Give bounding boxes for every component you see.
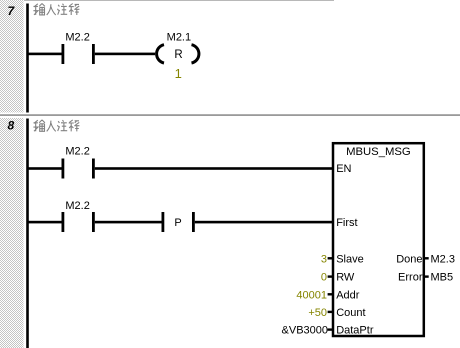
svg-text:+50: +50 — [308, 307, 327, 319]
svg-text:M2.2: M2.2 — [65, 200, 89, 212]
svg-text:First: First — [336, 217, 357, 229]
svg-text:MB5: MB5 — [431, 272, 454, 284]
svg-text:3: 3 — [321, 253, 327, 265]
svg-text:MBUS_MSG: MBUS_MSG — [346, 146, 411, 158]
svg-text:M2.3: M2.3 — [431, 253, 455, 265]
svg-text:R: R — [174, 49, 182, 61]
svg-text:40001: 40001 — [296, 289, 327, 301]
svg-text:M2.1: M2.1 — [167, 31, 191, 43]
svg-text:&VB3000: &VB3000 — [282, 325, 328, 337]
svg-text:Slave: Slave — [336, 253, 364, 265]
svg-text:P: P — [174, 217, 181, 229]
svg-text:8: 8 — [8, 119, 15, 133]
svg-text:Count: Count — [336, 307, 365, 319]
svg-text:M2.2: M2.2 — [65, 31, 89, 43]
svg-text:Done: Done — [396, 253, 422, 265]
svg-text:EN: EN — [336, 163, 351, 175]
svg-text:1: 1 — [175, 66, 182, 81]
svg-text:0: 0 — [321, 272, 327, 284]
svg-text:M2.2: M2.2 — [65, 146, 89, 158]
svg-text:Addr: Addr — [336, 289, 360, 301]
svg-text:DataPtr: DataPtr — [336, 325, 374, 337]
svg-text:Error: Error — [398, 272, 423, 284]
svg-text:RW: RW — [336, 272, 355, 284]
